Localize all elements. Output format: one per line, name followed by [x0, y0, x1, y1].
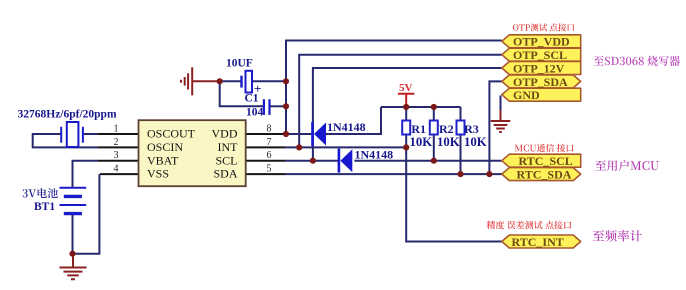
- svg-text:2: 2: [114, 137, 119, 148]
- svg-text:VBAT: VBAT: [147, 153, 179, 167]
- svg-text:5: 5: [267, 164, 272, 175]
- svg-text:10K: 10K: [464, 135, 487, 149]
- svg-text:RTC_SCL: RTC_SCL: [519, 154, 573, 168]
- svg-text:OTP_SCL: OTP_SCL: [513, 48, 567, 62]
- svg-text:4: 4: [114, 164, 119, 175]
- svg-text:SCL: SCL: [215, 153, 237, 167]
- svg-text:1N4148: 1N4148: [355, 148, 394, 162]
- svg-text:10K: 10K: [410, 135, 433, 149]
- svg-text:RTC_SDA: RTC_SDA: [517, 168, 572, 182]
- svg-text:1: 1: [114, 124, 119, 135]
- svg-text:OSCOUT: OSCOUT: [147, 127, 196, 141]
- svg-text:7: 7: [267, 137, 272, 148]
- svg-text:SDA: SDA: [213, 167, 237, 181]
- svg-text:R1: R1: [411, 122, 426, 136]
- svg-text:5V: 5V: [399, 82, 413, 94]
- svg-text:OTP_SDA: OTP_SDA: [513, 75, 568, 89]
- svg-text:RTC_INT: RTC_INT: [512, 235, 564, 249]
- svg-text:VSS: VSS: [147, 167, 169, 181]
- svg-text:10UF: 10UF: [226, 58, 253, 70]
- svg-text:R2: R2: [439, 122, 454, 136]
- svg-text:6: 6: [267, 150, 272, 161]
- svg-text:INT: INT: [218, 140, 239, 154]
- svg-text:VDD: VDD: [212, 127, 238, 141]
- svg-text:C1: C1: [245, 93, 259, 105]
- svg-text:OSCIN: OSCIN: [147, 140, 183, 154]
- svg-text:8: 8: [267, 124, 272, 135]
- svg-text:1N4148: 1N4148: [327, 120, 366, 134]
- svg-text:OTP_VDD: OTP_VDD: [513, 35, 570, 49]
- svg-text:3: 3: [114, 150, 119, 161]
- svg-text:BT1: BT1: [34, 201, 55, 213]
- svg-text:32768Hz/6pf/20ppm: 32768Hz/6pf/20ppm: [18, 109, 117, 121]
- svg-text:GND: GND: [513, 88, 540, 102]
- svg-text:104: 104: [246, 107, 264, 119]
- svg-text:OTP_12V: OTP_12V: [513, 61, 565, 75]
- svg-text:R3: R3: [464, 122, 479, 136]
- svg-text:10K: 10K: [437, 135, 460, 149]
